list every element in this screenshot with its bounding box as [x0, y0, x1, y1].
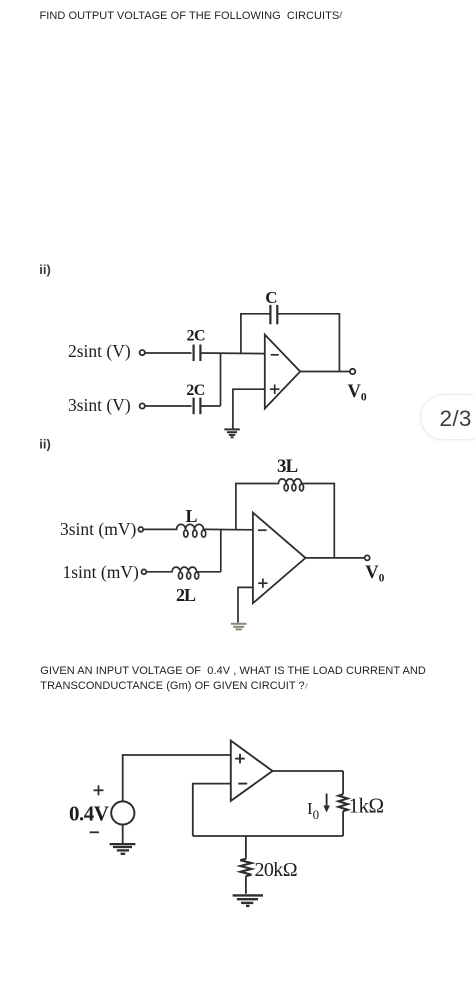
wire junction vertical c2	[220, 529, 222, 571]
svg-text:L: L	[186, 506, 198, 526]
terminal input 1 c2	[138, 527, 143, 532]
svg-text:0.4V: 0.4V	[69, 802, 109, 826]
minus sign source	[90, 831, 100, 833]
feedback top wire left	[240, 313, 270, 315]
feedback top wire left c2	[235, 483, 276, 485]
svg-text:2C: 2C	[187, 328, 206, 345]
output wire c2	[306, 557, 365, 559]
svg-text:C: C	[265, 288, 277, 307]
svg-text:2L: 2L	[176, 585, 196, 605]
heading line 1	[40, 9, 340, 25]
svg-text:3L: 3L	[277, 456, 298, 477]
minus sign U3	[238, 783, 247, 785]
non-inverting input wire c2	[238, 587, 253, 622]
voltage source lead bottom	[122, 825, 124, 843]
wire source to op-amp	[122, 754, 231, 756]
op-amp U1	[265, 335, 300, 409]
wire	[200, 405, 220, 407]
svg-text:2sint (V): 2sint (V)	[68, 341, 131, 361]
inductor 3L feedback	[276, 479, 303, 491]
svg-text:1kΩ: 1kΩ	[349, 794, 384, 818]
plus sign source	[94, 785, 104, 795]
output wire	[300, 371, 350, 373]
inductor 2L	[169, 567, 199, 579]
wire	[145, 405, 191, 407]
feedback top wire right	[277, 313, 339, 315]
wire 20k to ground	[245, 876, 247, 894]
wire to inverting input	[200, 352, 264, 355]
bottom rail wire	[193, 835, 343, 837]
wire output down	[342, 771, 344, 794]
wire rail to 20k	[245, 836, 247, 859]
minus sign U2	[258, 529, 267, 531]
capacitor 2C (bottom)	[194, 398, 201, 415]
output terminal c2	[365, 555, 370, 560]
svg-text:V0: V0	[348, 382, 367, 404]
inverting feedback wire c3	[193, 784, 231, 836]
voltage source 0.4V	[111, 801, 134, 824]
feedback left leg wire c2	[235, 484, 237, 530]
svg-text:ii): ii)	[39, 262, 51, 277]
svg-text:1sint (mV): 1sint (mV)	[63, 562, 139, 582]
ground 20k	[233, 895, 263, 906]
svg-text:20kΩ: 20kΩ	[255, 859, 297, 881]
capacitor 2C (top)	[194, 345, 201, 362]
svg-text:3sint (V): 3sint (V)	[68, 395, 131, 415]
inductor L	[174, 524, 207, 537]
tick mark after question text	[306, 683, 308, 689]
wire to inverting input c2	[207, 528, 253, 530]
wire resistor to rail	[342, 811, 344, 836]
plus sign U1	[270, 384, 280, 394]
svg-text:2C: 2C	[186, 382, 205, 399]
wire	[145, 352, 191, 354]
ground circuit 1	[224, 429, 240, 437]
resistor 20k	[240, 859, 251, 876]
non-inverting input wire	[233, 389, 265, 428]
ground source	[110, 844, 136, 854]
terminal input 2	[140, 403, 145, 408]
wire	[200, 571, 221, 573]
svg-text:3sint (mV): 3sint (mV)	[60, 519, 136, 539]
wire	[143, 528, 173, 530]
svg-text:V0: V0	[365, 563, 384, 585]
capacitor C feedback	[270, 305, 277, 324]
op-amp U3	[231, 741, 273, 801]
question text	[40, 664, 426, 695]
output wire c3	[273, 770, 344, 772]
plus sign U2	[258, 579, 267, 588]
feedback right leg wire c2	[333, 483, 335, 558]
resistor 1k	[339, 794, 348, 811]
op-amp U2	[253, 513, 306, 604]
page indicator pill 2/3	[420, 394, 474, 440]
wire junction vertical	[220, 353, 222, 406]
svg-text:ii): ii)	[39, 437, 51, 452]
current arrow I0	[323, 794, 330, 813]
wire	[146, 571, 169, 573]
terminal input 2 c2	[142, 569, 147, 574]
feedback left leg wire	[240, 314, 242, 354]
ground circuit 2	[231, 624, 247, 630]
feedback top wire right c2	[304, 483, 335, 485]
feedback right leg wire	[338, 313, 340, 372]
svg-text:I0: I0	[307, 799, 319, 822]
terminal input 1	[140, 350, 145, 355]
tick mark after heading	[340, 12, 342, 19]
voltage source lead top	[122, 755, 124, 801]
plus sign U3	[235, 754, 245, 764]
output terminal	[350, 369, 355, 374]
minus sign U1	[271, 354, 279, 356]
